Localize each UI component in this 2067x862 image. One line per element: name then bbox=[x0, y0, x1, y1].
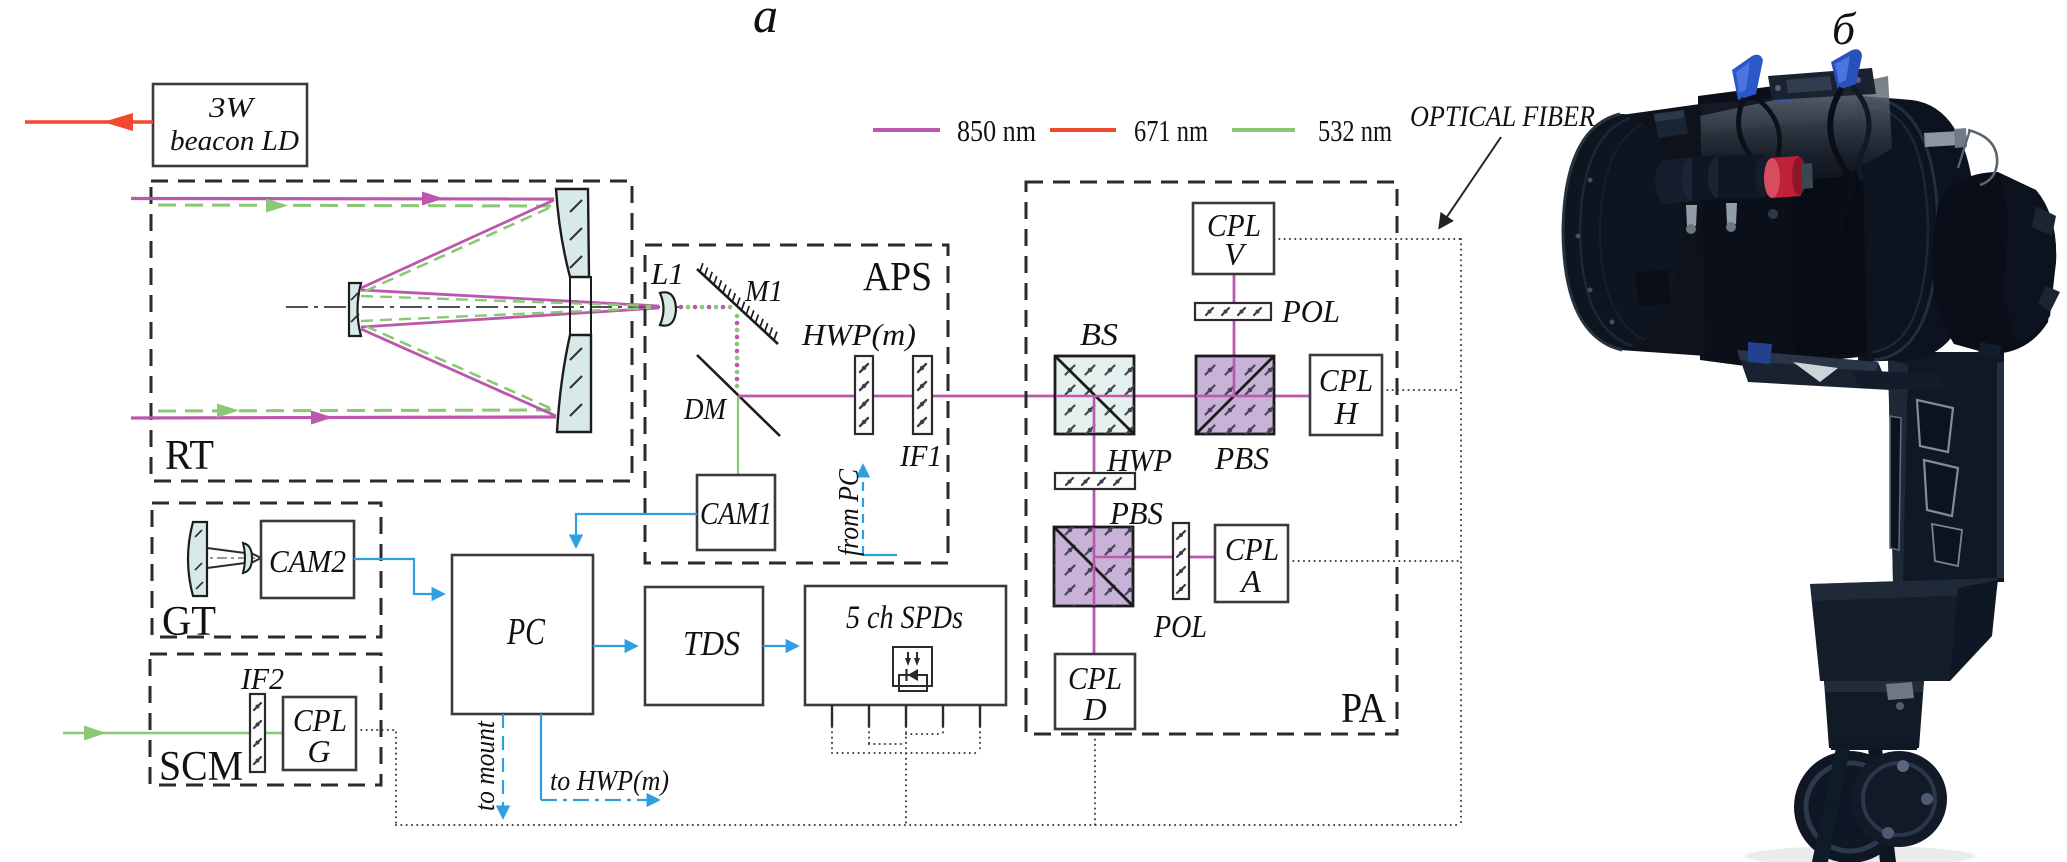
beam CPLV vertical bbox=[1233, 274, 1236, 396]
ray 532nm secondary to focus upper bbox=[361, 296, 651, 306]
beam PBS2 right to CPL A bbox=[1094, 556, 1215, 559]
blue handle left bbox=[1732, 55, 1763, 100]
svg-text:CPL: CPL bbox=[1319, 362, 1373, 398]
ray 850nm primary-bottom to secondary bbox=[361, 329, 556, 416]
waveplate HWP bbox=[1055, 473, 1135, 489]
SPD icon bbox=[893, 647, 932, 691]
fiber bottom bus bbox=[396, 824, 1461, 826]
svg-text:beacon LD: beacon LD bbox=[170, 125, 299, 157]
svg-text:CPL: CPL bbox=[1225, 531, 1279, 567]
svg-text:L1: L1 bbox=[650, 256, 684, 291]
beam 850nm top input bbox=[131, 192, 554, 206]
red knob bbox=[1771, 156, 1801, 198]
svg-text:APS: APS bbox=[863, 253, 932, 299]
svg-text:M1: M1 bbox=[744, 273, 783, 308]
box 3W beacon LD bbox=[153, 84, 307, 166]
box CPL A bbox=[1215, 525, 1288, 602]
beam 532nm bottom input bbox=[158, 404, 551, 418]
svg-text:SCM: SCM bbox=[159, 744, 243, 790]
svg-text:A: A bbox=[1239, 563, 1261, 599]
optical axis RT bbox=[286, 306, 680, 308]
wire CAM2 to PC blue bbox=[354, 559, 443, 594]
cables bbox=[1739, 98, 1761, 196]
svg-text:IF2: IF2 bbox=[240, 661, 284, 696]
fork arm bbox=[1888, 352, 2004, 582]
front strut leg bbox=[1812, 748, 1850, 862]
mirror DM bbox=[697, 355, 780, 436]
module box APS bbox=[645, 245, 948, 563]
wire TDS to SPDs bbox=[763, 645, 797, 647]
module box RT bbox=[151, 181, 632, 481]
beam 532nm top input bbox=[158, 199, 551, 213]
box CAM2 bbox=[261, 521, 354, 598]
svg-text:5 ch SPDs: 5 ch SPDs bbox=[846, 600, 963, 636]
SPD output pins bbox=[832, 705, 980, 727]
filter IF2 bbox=[250, 694, 265, 772]
svg-text:IF1: IF1 bbox=[899, 438, 942, 473]
fiber CPL G route bbox=[356, 730, 396, 825]
focuser knobs bbox=[1655, 160, 1677, 204]
GT mirror hatching bbox=[195, 530, 203, 589]
primary mirror lower segment bbox=[557, 335, 591, 432]
svg-text:PBS: PBS bbox=[1109, 495, 1163, 531]
svg-text:TDS: TDS bbox=[683, 624, 740, 663]
box CPL H bbox=[1310, 355, 1382, 435]
legend 671 nm line bbox=[1050, 128, 1116, 132]
module box SCM bbox=[150, 654, 381, 785]
ray 532nm primary-top to secondary bbox=[361, 208, 549, 293]
svg-text:D: D bbox=[1082, 691, 1106, 727]
beam 532nm DM to CAM1 bbox=[737, 397, 739, 475]
GT mirror bbox=[188, 522, 207, 596]
ray 850nm secondary to focus upper bbox=[361, 290, 659, 306]
svg-text:CAM1: CAM1 bbox=[700, 495, 772, 531]
fork arm cutout 3 bbox=[1932, 524, 1962, 566]
GT optical axis bbox=[196, 557, 262, 559]
svg-text:HWP: HWP bbox=[1106, 442, 1172, 478]
mirror M1 bbox=[697, 263, 778, 344]
GT lens bbox=[243, 543, 252, 573]
svg-text:3W: 3W bbox=[208, 92, 256, 124]
ray 850nm secondary to focus lower bbox=[361, 308, 659, 327]
beam BS down to PBS2 bbox=[1093, 434, 1096, 557]
dotted beam L1 to M1 bbox=[679, 305, 733, 310]
fork arm right edge light bbox=[1997, 362, 2004, 578]
wire from PC to HWP(m) motor bbox=[863, 466, 897, 555]
cube PBS1 bbox=[1196, 356, 1274, 434]
ray 532nm primary-bottom to secondary bbox=[361, 324, 550, 408]
hanging clips bbox=[1686, 205, 1697, 226]
beam PBS2 down to CPL D bbox=[1093, 557, 1096, 654]
svg-text:a: a bbox=[753, 0, 778, 43]
module box GT bbox=[152, 503, 381, 637]
small body bolt bbox=[1768, 209, 1778, 219]
beam 532nm into SCM bbox=[63, 726, 283, 741]
main body bbox=[1698, 83, 1868, 368]
svg-text:V: V bbox=[1224, 236, 1247, 272]
cube PBS2 bbox=[1054, 527, 1133, 606]
svg-text:532 nm: 532 nm bbox=[1318, 113, 1392, 148]
rear drum cylinder bbox=[1858, 96, 1976, 362]
svg-text:PC: PC bbox=[506, 611, 545, 653]
wire PC to TDS bbox=[593, 645, 636, 647]
svg-text:to mount: to mount bbox=[470, 720, 501, 811]
beam 850nm BS row bbox=[1056, 395, 1310, 398]
body top sheen bbox=[1700, 92, 1858, 132]
fiber bus vertical bbox=[1460, 239, 1462, 825]
secondary mirror hatching bbox=[351, 292, 359, 322]
wire CAM1 to PC blue bbox=[576, 514, 697, 546]
GT rays bbox=[207, 548, 261, 568]
drum front face bbox=[1810, 98, 1934, 360]
lens L1 bbox=[660, 292, 676, 325]
box PC bbox=[452, 555, 593, 714]
module box PA bbox=[1026, 182, 1397, 734]
box CPL G bbox=[283, 697, 356, 770]
beam 850nm bottom input bbox=[131, 411, 556, 425]
svg-text:HWP(m): HWP(m) bbox=[801, 317, 916, 352]
svg-text:from PC: from PC bbox=[834, 469, 865, 556]
polarizer POL top bbox=[1195, 303, 1271, 320]
column bbox=[1824, 681, 1924, 748]
barrel top lug bbox=[1654, 110, 1688, 138]
svg-text:H: H bbox=[1333, 395, 1359, 431]
svg-text:BS: BS bbox=[1080, 316, 1118, 352]
wire handle bbox=[1968, 130, 1997, 185]
wheel bolts bbox=[1897, 760, 1909, 772]
photo ground shadow bbox=[1745, 846, 1975, 862]
beam overlays inside cubes bbox=[1056, 357, 1273, 605]
wire PC to HWP(m) bbox=[540, 714, 542, 800]
wire PC to mount bbox=[502, 714, 504, 817]
waveplate HWP(m) bbox=[855, 356, 873, 434]
svg-text:RT: RT bbox=[165, 433, 214, 479]
box TDS bbox=[645, 587, 763, 705]
fork arm left chamfer highlight bbox=[1888, 360, 1908, 582]
box 5ch SPDs bbox=[805, 586, 1006, 705]
svg-text:CAM2: CAM2 bbox=[269, 543, 346, 579]
optical fiber arrow bbox=[1440, 137, 1501, 227]
bottom mounting plate bbox=[1737, 350, 1890, 390]
body mid shadow band bbox=[1790, 176, 1866, 358]
svg-text:GT: GT bbox=[162, 599, 216, 645]
primary mirror hatching bbox=[570, 200, 582, 416]
fork arm cutout 1 bbox=[1917, 400, 1953, 452]
fiber CPL V to bus bbox=[1274, 238, 1461, 240]
silver pin bbox=[1924, 131, 1961, 147]
small blue patch bbox=[1777, 86, 1794, 102]
beam 850nm DM to BS bbox=[738, 395, 1056, 398]
wheel small bbox=[1851, 751, 1947, 847]
box CPL V bbox=[1193, 203, 1274, 274]
legend 532 nm line bbox=[1232, 128, 1295, 132]
barrel vent bbox=[1636, 270, 1670, 306]
svg-text:to HWP(m): to HWP(m) bbox=[550, 766, 669, 797]
polarizer POL bottom bbox=[1173, 523, 1189, 599]
fork arm slot bbox=[1890, 416, 1901, 550]
cap bolts bbox=[1588, 178, 1593, 183]
top bracket plate bbox=[1768, 68, 1876, 100]
beam 671nm red output arrow bbox=[25, 113, 153, 131]
primary mirror upper segment bbox=[556, 189, 589, 277]
SPD dotted wiring bbox=[832, 727, 980, 825]
fiber CPL D down bbox=[1094, 729, 1096, 825]
column side bolts bbox=[1886, 682, 1914, 700]
svg-text:OPTICAL FIBER: OPTICAL FIBER bbox=[1410, 100, 1595, 133]
filter IF1 bbox=[913, 356, 932, 434]
body top gray wash bbox=[1690, 76, 1892, 199]
fork arm cutout 2 bbox=[1924, 460, 1958, 516]
rear strut bbox=[1868, 748, 1896, 862]
svg-text:б: б bbox=[1832, 3, 1857, 54]
svg-text:PA: PA bbox=[1341, 686, 1387, 732]
svg-text:POL: POL bbox=[1153, 608, 1207, 644]
ray 850nm primary-top to secondary bbox=[361, 200, 554, 288]
legend 850 nm line bbox=[873, 128, 940, 132]
front barrel bbox=[1614, 104, 1706, 356]
blue handle right bbox=[1831, 49, 1862, 90]
mirror cover blob bbox=[1932, 172, 2056, 354]
box CPL D bbox=[1055, 654, 1135, 729]
svg-text:PBS: PBS bbox=[1214, 440, 1269, 476]
cube BS bbox=[1055, 356, 1134, 434]
elbow block bbox=[1810, 578, 1998, 681]
svg-text:671 nm: 671 nm bbox=[1134, 113, 1208, 148]
primary mirror hub bbox=[570, 277, 591, 335]
svg-text:850 nm: 850 nm bbox=[957, 113, 1036, 148]
svg-text:G: G bbox=[307, 733, 330, 769]
fiber CPL A to bus bbox=[1288, 560, 1461, 562]
gray knob tip bbox=[1801, 163, 1813, 189]
svg-text:DM: DM bbox=[683, 391, 728, 426]
dotted beam M1 to DM bbox=[735, 314, 740, 389]
ray 532nm secondary to focus lower bbox=[361, 308, 651, 321]
secondary mirror bbox=[349, 283, 361, 336]
box CAM1 bbox=[697, 475, 775, 550]
barrel cap bbox=[1563, 114, 1681, 350]
fiber CPL H to bus bbox=[1382, 389, 1461, 391]
cover tabs bbox=[2032, 206, 2056, 236]
svg-text:POL: POL bbox=[1281, 293, 1340, 329]
wheel big bbox=[1794, 751, 1906, 862]
